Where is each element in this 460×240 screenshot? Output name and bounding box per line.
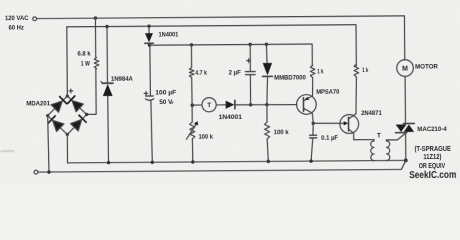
wire: 100k top lead <box>266 105 268 122</box>
label 0.1 uF <box>321 135 338 142</box>
svg-text:(T-SPRAGUE: (T-SPRAGUE <box>415 146 452 153</box>
label T (transformer) <box>377 132 381 139</box>
svg-text:M: M <box>402 66 408 73</box>
label MPSA70 <box>316 89 340 96</box>
resistor 6.8k 1W <box>94 57 99 68</box>
capacitor 2uF <box>246 72 256 75</box>
svg-text:1 k: 1 k <box>362 67 368 74</box>
label + (bridge positive) <box>69 89 73 93</box>
wire: 1N4001 top lead <box>148 26 150 33</box>
wire: T to diode <box>216 104 225 106</box>
bridge diode top-right <box>72 100 83 111</box>
node: rail/100k bottom <box>267 160 270 163</box>
node: rail/zener <box>105 25 108 28</box>
wire: DC+ rail <box>67 25 356 68</box>
resistor 4.7k <box>189 67 194 77</box>
label MMBD7000 <box>274 75 306 82</box>
wire: 0.1uF bottom lead <box>311 138 313 161</box>
wire: 1k to MPSA70 emitter <box>311 78 313 96</box>
node: MPSA70 collector / 0.1uF / UJT emitter <box>312 122 315 125</box>
wire: pot top lead <box>191 105 193 122</box>
svg-text:11Z12): 11Z12) <box>423 154 441 161</box>
node: rail/0.1uF bottom <box>309 159 312 162</box>
wire: 100uF bottom lead <box>151 100 152 162</box>
label 1N4001 (top) <box>159 32 179 39</box>
label + (100uF) <box>144 91 148 95</box>
svg-text:MPSA70: MPSA70 <box>316 89 340 96</box>
transformer T secondary coil <box>386 141 389 161</box>
resistor 100k (right) <box>265 122 270 139</box>
wire: motor to triac MT2 <box>404 76 406 124</box>
label MOTOR <box>415 64 438 71</box>
wire: primary top stub <box>373 140 375 141</box>
scan speck <box>171 101 174 104</box>
node: AC rail / bridge left <box>47 170 50 173</box>
wire: MMBD7000 top lead <box>265 44 268 63</box>
node: rail/4.7k <box>190 43 193 46</box>
node: rail/2uF <box>248 43 251 46</box>
node: AC input terminal top <box>33 17 37 21</box>
wire: top AC rail <box>37 16 405 19</box>
label 1N984A <box>111 76 133 83</box>
svg-text:T: T <box>207 102 211 109</box>
wire: down to 100uF <box>149 45 152 96</box>
svg-text:50 V: 50 V <box>159 99 173 106</box>
wire: bridge left vertex down to AC return <box>48 116 49 172</box>
diode 1N4001 (series) <box>145 33 153 43</box>
wire: triac MT1 down <box>405 133 407 161</box>
svg-text:MMBD7000: MMBD7000 <box>274 75 306 82</box>
svg-text:MAC210-4: MAC210-4 <box>417 126 447 133</box>
label 120 VAC 60 Hz <box>5 15 29 22</box>
svg-text:1N4001: 1N4001 <box>159 32 179 39</box>
transformer T primary coil <box>371 141 374 161</box>
node: mid wire / 4.7k / pot <box>190 103 194 107</box>
wire: bottom AC rail <box>38 160 406 172</box>
node: Vcc rail start <box>148 43 151 46</box>
node: rail/100uF bottom <box>151 161 154 164</box>
diode MMBD7000 <box>262 63 272 76</box>
wire: 2uF top lead <box>249 44 251 71</box>
wire: UJT B1 to transformer primary <box>354 139 374 141</box>
wire: secondary bottom to rail <box>386 159 388 161</box>
wire: 2uF bottom lead <box>249 75 251 105</box>
svg-text:1N984A: 1N984A <box>111 76 133 83</box>
svg-text:2N4871: 2N4871 <box>361 110 382 117</box>
label 1N4001 (mid) <box>219 114 243 121</box>
svg-text:6.8 k: 6.8 k <box>77 51 91 58</box>
zener diode 1N984A <box>101 81 113 96</box>
svg-text:MOTOR: MOTOR <box>415 64 438 71</box>
wire: bridge + up to DC rail <box>66 27 69 96</box>
bridge diode bottom-right <box>70 120 81 131</box>
wire: bridge bottom down to DC minus rail <box>66 134 68 162</box>
label SeekIC.com watermark <box>409 170 456 181</box>
node: rail/1N4001 <box>147 24 150 27</box>
node: bridge vertices <box>46 94 89 136</box>
svg-text:SeekIC.com: SeekIC.com <box>409 170 456 181</box>
svg-text:100 k: 100 k <box>274 129 289 136</box>
resistor 1k (right) <box>354 64 359 77</box>
wire: 1N4001 cathode to Vcc rail node <box>148 43 150 45</box>
label 1 k (right) <box>362 67 368 74</box>
node: rail/zener bottom <box>107 161 110 164</box>
svg-text:T: T <box>377 132 381 139</box>
label 100 k (right) <box>274 129 289 136</box>
svg-text:MDA201: MDA201 <box>26 100 50 107</box>
wire: diode to MPSA70 base <box>235 103 297 106</box>
svg-text:4.7 k: 4.7 k <box>195 70 207 77</box>
label (T-SPRAGUE 11Z12) OR EQUIV <box>415 146 452 153</box>
diode 1N4001 (mid) <box>226 100 235 108</box>
node: rail/pot bottom <box>191 160 194 163</box>
bridge diode bottom-left <box>53 120 64 131</box>
wire: pot bottom lead <box>191 139 193 162</box>
capacitor 100uF 50V <box>145 96 153 100</box>
label 100 k (pot) <box>199 134 214 141</box>
motor M <box>397 60 414 77</box>
wire: secondary top to triac gate <box>386 140 397 141</box>
scan smudge <box>1 150 13 152</box>
label 4.7 k <box>195 70 207 77</box>
svg-text:100 k: 100 k <box>199 134 214 141</box>
label + (2uF) <box>247 59 251 63</box>
wire: 1k to UJT B2 <box>355 77 358 114</box>
node: mid/MMBD7000/100k <box>265 103 268 106</box>
wire: Vcc rail <box>149 44 312 67</box>
lamp/thermistor T <box>202 98 216 112</box>
wire: top rail down to motor <box>403 16 405 60</box>
label 100 uF / 50 V <box>155 89 176 96</box>
wire: 4.7k top lead <box>190 45 192 67</box>
svg-text:60 Hz: 60 Hz <box>9 25 24 32</box>
label 1 k (left) <box>317 69 324 76</box>
label MDA201 <box>26 100 50 107</box>
transistor MPSA70 <box>297 95 317 124</box>
node: AC input terminal bottom <box>34 170 38 174</box>
pot wiper arrow <box>186 121 198 139</box>
svg-text:1 W: 1 W <box>81 61 91 68</box>
svg-text:0.1 µF: 0.1 µF <box>321 135 338 142</box>
node: rail end / triac MT1 <box>404 158 408 162</box>
resistor 1k (left) <box>310 65 315 78</box>
label 6.8 k / 1 W <box>77 51 91 58</box>
bridge rectifier MDA201 outline <box>48 96 87 135</box>
capacitor 0.1uF <box>310 135 317 138</box>
wire: primary bottom to rail <box>373 160 375 162</box>
wire: 0.1uF top lead <box>312 123 314 135</box>
wire: 4.7k bottom lead <box>191 78 193 106</box>
wire: zener bottom lead <box>107 96 110 163</box>
wire: mid wire to lamp <box>192 104 202 106</box>
potentiometer 100k <box>190 122 195 139</box>
triac MAC210-4 <box>395 123 414 132</box>
node: rail/MMBD7000 <box>265 43 268 46</box>
label 2N4871 <box>361 110 382 117</box>
transistor 2N4871 (UJT) <box>340 114 359 140</box>
wire: MMBD7000 bottom lead <box>267 76 268 104</box>
bridge diode top-left <box>51 101 62 112</box>
wire: UJT emitter wire <box>313 122 344 124</box>
svg-text:2 µF: 2 µF <box>229 70 241 77</box>
svg-text:120 VAC: 120 VAC <box>5 15 29 22</box>
svg-text:1N4001: 1N4001 <box>219 114 243 121</box>
node: junction top rail / 6.8k <box>94 16 97 19</box>
wire: 100k bottom lead <box>267 139 268 161</box>
wire: zener top lead <box>106 26 108 83</box>
wire: DC minus rail <box>68 160 406 162</box>
label 2 uF <box>229 70 241 77</box>
svg-text:1 k: 1 k <box>317 69 324 76</box>
wire: triac gate diagonal <box>397 133 406 140</box>
wire: 6.8k bottom lead to bridge right vertex <box>86 69 96 115</box>
wire: 6.8k top lead <box>94 18 96 57</box>
svg-text:100 µF: 100 µF <box>155 89 176 96</box>
node: mid/2uF <box>249 103 252 106</box>
label MAC210-4 <box>417 126 447 133</box>
